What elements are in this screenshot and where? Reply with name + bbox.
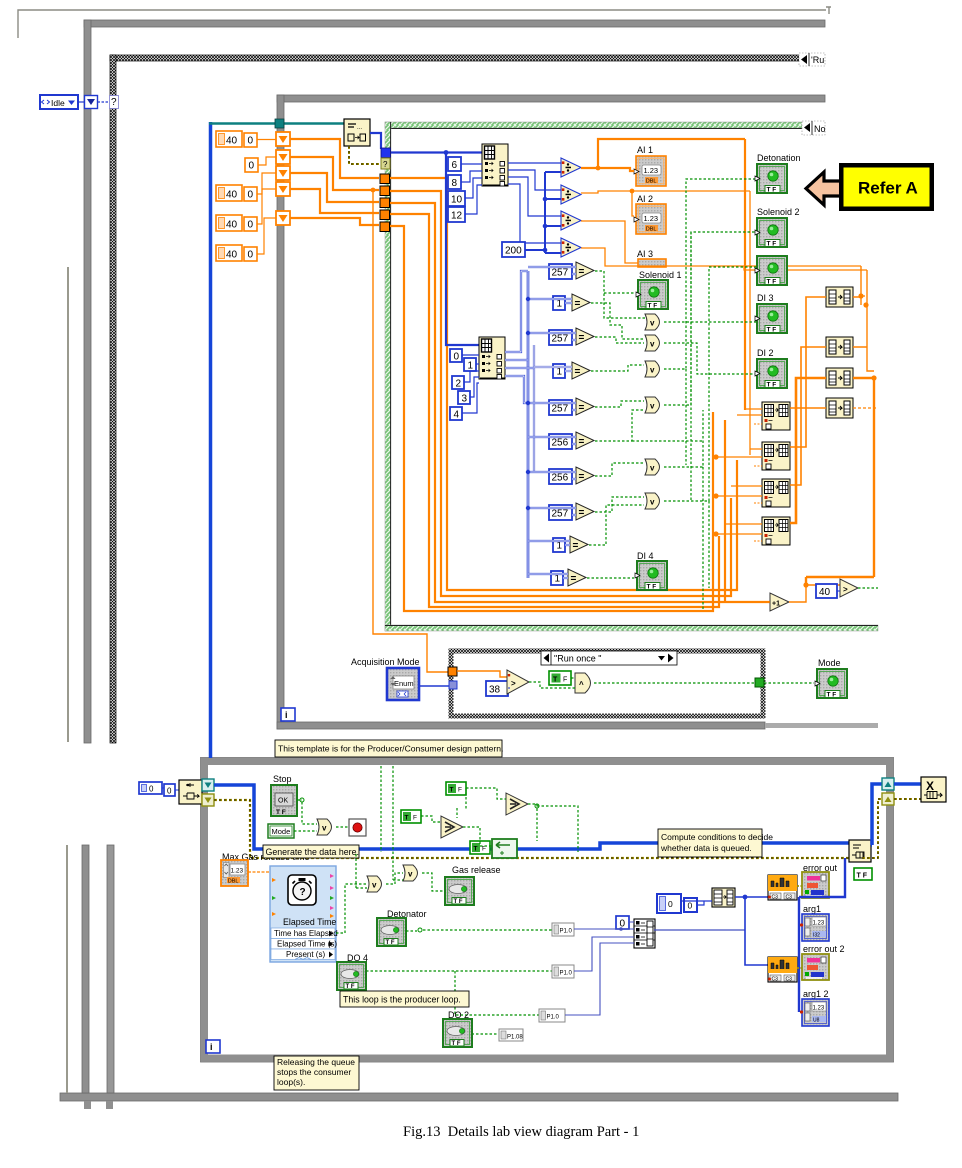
divide node D3 xyxy=(561,211,581,230)
wire tunnel3 descend right bundle xyxy=(390,203,770,602)
svg-text:No: No xyxy=(814,124,826,134)
wire const row3 to SR3 xyxy=(257,173,276,194)
page border corner top-left xyxy=(18,10,826,38)
producer while loop frame xyxy=(205,762,890,1059)
row2 equal node xyxy=(572,294,590,311)
wire 12 to U1 xyxy=(465,185,482,214)
OR gate column c xyxy=(645,361,660,377)
channel constant c2 xyxy=(552,965,574,978)
svg-text:T F: T F xyxy=(276,809,286,816)
dashed junction circle xyxy=(535,804,539,808)
bool-to-num node B2 xyxy=(826,337,853,357)
numeric constant 0 pair a xyxy=(657,894,681,913)
svg-text:1.23: 1.23 xyxy=(231,868,244,875)
svg-text:0: 0 xyxy=(688,901,693,911)
obtain queue constant 2 xyxy=(164,784,175,796)
row7 numeric constant 256 xyxy=(549,469,572,484)
loop stop terminal (red) xyxy=(349,819,366,836)
replace array node R1 xyxy=(762,402,790,430)
error wire into loop xyxy=(214,800,852,858)
svg-text:40: 40 xyxy=(819,587,831,598)
row8 bus dot xyxy=(526,506,530,510)
wire SR2 to tunnel2 xyxy=(290,157,379,190)
numeric indicator AI 2 xyxy=(634,204,666,234)
row9 wires xyxy=(528,541,570,545)
svg-text:1: 1 xyxy=(468,361,474,372)
svg-text:Elapsed Time (s): Elapsed Time (s) xyxy=(277,940,337,949)
row3 numeric constant 257 xyxy=(549,330,572,345)
svg-text:C3: C3 xyxy=(772,895,779,901)
numeric constant 12 xyxy=(448,207,465,222)
wire tunnel4 descend right bundle xyxy=(390,214,719,607)
svg-text:1: 1 xyxy=(557,541,563,552)
orange tunnel into run once case xyxy=(448,667,457,676)
svg-text:T F: T F xyxy=(857,873,868,880)
dashed wires producer ORs xyxy=(336,852,444,933)
boolean indicator Solenoid 2 xyxy=(755,218,787,248)
inner while loop bottom edge xyxy=(277,722,765,729)
svg-text:Acquisition Mode: Acquisition Mode xyxy=(351,657,420,667)
build array node xyxy=(634,919,655,948)
blue vertical to unbundle2 xyxy=(446,152,479,345)
row5 numeric constant 257 xyxy=(549,400,572,415)
row8 numeric constant 257 xyxy=(549,505,572,520)
svg-text:error out 2: error out 2 xyxy=(803,944,845,954)
row9 numeric constant 1 xyxy=(553,538,565,552)
OR gate column d xyxy=(645,397,660,413)
svg-text:I32: I32 xyxy=(813,933,820,939)
numeric constant 6 xyxy=(448,157,461,171)
row9 equal node xyxy=(570,536,588,553)
junction circle detonator xyxy=(418,928,422,932)
wire enum to tunnel xyxy=(78,101,84,103)
bool-to-num node B3 xyxy=(826,368,853,388)
numeric control 40 (CH0) xyxy=(216,131,242,147)
and gate xyxy=(575,673,591,693)
junction dot main blue xyxy=(444,150,449,155)
numeric constant u0 xyxy=(450,349,462,363)
build array out xyxy=(654,929,745,931)
svg-text:This template is for the Produ: This template is for the Producer/Consum… xyxy=(278,744,503,754)
inner while loop left edge xyxy=(277,95,284,729)
comparison bus vertical xyxy=(527,271,530,578)
numeric control 40 (CH3) xyxy=(216,245,242,261)
channel constant P1.08 xyxy=(499,1029,523,1041)
bool-to-num node B4 xyxy=(826,398,853,418)
orange tunnel4 on green case xyxy=(380,210,390,220)
svg-text:>: > xyxy=(843,585,848,594)
wire D3 to AI3 xyxy=(581,221,638,263)
wire 38 to greater2 xyxy=(508,687,510,689)
svg-text:0: 0 xyxy=(248,136,254,147)
numeric indicator AI 1 xyxy=(634,156,666,186)
greater output dashed xyxy=(858,587,878,589)
svg-text:loop(s).: loop(s). xyxy=(277,1077,305,1087)
svg-text:F: F xyxy=(458,787,462,794)
green dashed OR outputs and risers xyxy=(664,179,756,610)
green dashed row outputs xyxy=(587,271,703,578)
row8 equal node xyxy=(576,503,594,520)
wire 40 to greater xyxy=(837,590,840,592)
svg-text:0: 0 xyxy=(249,161,255,172)
numeric indicator arg1 2 xyxy=(800,999,829,1026)
run once case border xyxy=(451,651,763,716)
and gate output dashed to tunnel xyxy=(594,682,755,684)
svg-text:Refer A: Refer A xyxy=(858,179,918,198)
wire orange tunnel to greater2 xyxy=(457,671,507,677)
outer loop bottom stub left xyxy=(84,1101,91,1109)
wire const row2 to SR2 xyxy=(258,157,276,165)
queue wire into loop xyxy=(214,785,851,849)
row10 equal node xyxy=(568,569,586,586)
enqueue selector box xyxy=(492,839,517,858)
svg-text:P1.0: P1.0 xyxy=(547,1015,560,1021)
outer while loop top edge xyxy=(84,20,825,27)
comparison bus vertical2 xyxy=(533,345,535,471)
replace array node R3 xyxy=(762,479,790,507)
tunnel error out (olive) xyxy=(202,794,214,806)
svg-text:256: 256 xyxy=(552,438,569,449)
shift register SR3 xyxy=(276,166,290,180)
numeric constant u1 xyxy=(464,358,476,372)
thin inner-page line upper xyxy=(67,267,69,742)
enqueue element node xyxy=(849,840,871,862)
svg-text:0: 0 xyxy=(248,250,254,261)
svg-text:T: T xyxy=(450,787,454,794)
comment releasing queue xyxy=(274,1056,359,1090)
svg-text:1.23: 1.23 xyxy=(813,1006,825,1012)
wire 6 to U1 xyxy=(461,163,482,165)
numeric constant 8 xyxy=(448,175,461,189)
svg-text:1: 1 xyxy=(557,367,563,378)
tunnel queue out of producer (teal) xyxy=(882,778,894,790)
row1 equal node xyxy=(576,262,594,279)
OR gate producer2 xyxy=(367,876,382,892)
wires channels to build array xyxy=(565,922,634,1015)
outer case label "'Ru xyxy=(799,53,825,66)
row3 bus dot xyxy=(526,331,530,335)
orange tunnel2 on green case xyxy=(380,186,390,196)
row6 wires xyxy=(528,437,576,444)
row1 wires xyxy=(528,267,576,274)
boolean indicator Solenoid 1 xyxy=(636,280,668,310)
svg-text:Time has Elapsed: Time has Elapsed xyxy=(274,929,338,938)
svg-text:arg1: arg1 xyxy=(803,904,821,914)
blue vertical daq bus xyxy=(745,897,768,965)
svg-text:Mode: Mode xyxy=(818,658,841,668)
svg-text:i: i xyxy=(285,710,288,720)
svg-text:F: F xyxy=(413,815,417,822)
case selector terminal ? xyxy=(110,96,119,109)
left bar lower resume thick1 xyxy=(82,845,89,1093)
outer case structure left border (hatched) xyxy=(110,55,116,743)
main blue wire into unbundle1 xyxy=(391,151,482,153)
numeric constant 0 pair b xyxy=(684,898,697,912)
row7 bus dot xyxy=(526,470,530,474)
green case bottom border xyxy=(385,625,878,631)
shift register SR2 xyxy=(276,150,290,164)
outer while loop bottom edge xyxy=(60,1093,898,1101)
replace array node R4 xyxy=(762,517,790,545)
wire enum to case xyxy=(419,685,449,687)
boolean indicator Gas release xyxy=(445,877,474,905)
svg-text:1: 1 xyxy=(557,299,563,310)
inner while loop iteration terminal [i] xyxy=(281,708,295,721)
numeric constant 38 xyxy=(486,681,508,696)
tunnel queue out (teal) xyxy=(202,779,214,791)
OR gate column a xyxy=(645,314,660,330)
svg-text:257: 257 xyxy=(552,268,569,279)
green case label No xyxy=(802,121,826,135)
svg-text:0: 0 xyxy=(167,787,172,796)
orange riser to B nodes xyxy=(790,266,877,585)
bool-to-num node B1 xyxy=(826,287,853,307)
row6 equal node xyxy=(576,432,594,449)
svg-text:Releasing the queue: Releasing the queue xyxy=(277,1057,355,1067)
inner while loop bottom edge light continuation xyxy=(765,723,878,728)
svg-text:1: 1 xyxy=(555,574,561,585)
bundle junction dot b xyxy=(713,493,718,498)
comment generate data xyxy=(263,845,359,858)
svg-text:OK: OK xyxy=(278,798,288,805)
boolean indicator Mode xyxy=(815,669,847,699)
svg-text:C3: C3 xyxy=(772,977,779,983)
dashed OR to stop terminal xyxy=(336,826,349,828)
wire +1 to greater xyxy=(789,585,840,602)
svg-text:i: i xyxy=(210,1042,213,1052)
wire u1 xyxy=(476,363,479,365)
wire dequeue data out to tunnel xyxy=(370,133,381,149)
wire SR5 to tunnel5 xyxy=(290,218,379,225)
numeric constant 0 row2 xyxy=(245,158,258,172)
run once case label xyxy=(541,651,677,665)
error daq2 to error out 2 xyxy=(797,967,802,969)
unbundle node U1 xyxy=(482,144,508,186)
queue refnum wire vertical (to producer loop) xyxy=(209,122,213,758)
svg-text:DI 3: DI 3 xyxy=(757,293,774,303)
svg-text:P1.08: P1.08 xyxy=(507,1035,523,1041)
enum control Acquisition Mode xyxy=(387,668,419,700)
svg-text:10: 10 xyxy=(451,195,463,206)
row1 numeric constant 257 xyxy=(549,264,572,279)
boolean constant TF producer2 xyxy=(401,810,421,823)
wire u0 xyxy=(462,354,479,356)
shift register SR1 xyxy=(276,132,290,146)
row2 wires xyxy=(528,299,572,303)
svg-text:40: 40 xyxy=(226,250,238,261)
svg-text:0: 0 xyxy=(149,785,154,794)
svg-text:0: 0 xyxy=(248,190,254,201)
outer while loop left edge xyxy=(84,20,91,743)
select gate B xyxy=(441,816,463,838)
error daq1 to error out xyxy=(797,885,802,887)
boolean indicator DI 2 xyxy=(755,359,787,389)
row10 numeric constant 1 xyxy=(551,571,563,585)
svg-text:U8: U8 xyxy=(813,1018,820,1024)
obtain queue node xyxy=(179,780,202,804)
boolean indicator TF small xyxy=(854,868,872,880)
wire 200 to divider bus xyxy=(525,249,545,251)
svg-text:40: 40 xyxy=(226,190,238,201)
svg-text:T: T xyxy=(474,846,478,853)
OR gate column b xyxy=(645,335,660,351)
wires constants to obtain queue xyxy=(162,788,179,790)
green case left border xyxy=(385,122,391,631)
svg-text:257: 257 xyxy=(552,509,569,520)
svg-text:T: T xyxy=(405,815,409,822)
shift register SR5 xyxy=(276,211,290,225)
cluster indicator error out xyxy=(802,872,829,898)
boolean indicator DO 4 xyxy=(337,962,366,990)
dashed stop to OR xyxy=(294,800,317,831)
tunnel blue into green case xyxy=(381,148,391,158)
numeric constant u2 xyxy=(452,376,464,390)
boolean indicator DI 3 xyxy=(755,304,787,334)
OR gate producer xyxy=(317,819,332,835)
svg-text:?: ? xyxy=(111,97,117,108)
svg-text:Generate the data here.: Generate the data here. xyxy=(266,847,359,857)
thin inner-page line lower xyxy=(66,845,68,1093)
row5 wires xyxy=(528,403,576,410)
channel constant c1 xyxy=(552,923,574,936)
svg-text:38: 38 xyxy=(489,685,501,696)
svg-text:0: 0 xyxy=(454,352,460,363)
numeric constant u4 xyxy=(450,407,462,421)
wire tunnel5 descend right bundle xyxy=(390,226,713,611)
wire 8 to U1 xyxy=(461,171,482,182)
numeric indicator AI 3 partial xyxy=(638,259,666,267)
svg-text:T: T xyxy=(553,677,558,684)
boolean indicator Detonator xyxy=(377,918,406,946)
bundle vertical extra xyxy=(724,420,726,602)
svg-text:40: 40 xyxy=(226,220,238,231)
row4 wires xyxy=(534,367,572,371)
queue wire to release node xyxy=(894,782,921,786)
producer loop iteration terminal [i] xyxy=(206,1040,220,1053)
svg-text:12: 12 xyxy=(451,211,463,222)
blue tunnel into run once case xyxy=(449,681,457,689)
numeric constant 0 row1 xyxy=(244,133,257,147)
DAQmx write node 1 xyxy=(768,875,797,901)
svg-text:?: ? xyxy=(300,887,306,898)
junction dot D1 out xyxy=(596,166,601,171)
row10 wires xyxy=(528,574,568,578)
left bar lower resume thick2 xyxy=(107,845,114,1093)
divider bus vertical xyxy=(545,172,561,253)
numeric constant 200 xyxy=(502,242,525,257)
error wire to release xyxy=(862,799,921,858)
green case (No Error) top border xyxy=(385,122,802,128)
select gate A xyxy=(506,793,528,815)
dashed detonator wiring xyxy=(366,930,552,1034)
boolean indicator DO 1 partial xyxy=(755,256,787,286)
svg-text:+1: +1 xyxy=(772,601,780,608)
wire U1 row3 to D3 xyxy=(508,177,561,216)
wire D1 to AI1 and top rail xyxy=(581,139,745,171)
svg-text:^: ^ xyxy=(579,680,584,689)
wire array node to daq xyxy=(735,896,768,898)
row6 numeric constant 256 xyxy=(549,434,572,449)
express VI Elapsed Time xyxy=(270,866,338,962)
wire 10 to U1 xyxy=(465,178,482,198)
svg-text:256: 256 xyxy=(552,473,569,484)
svg-text:DBL: DBL xyxy=(228,879,239,885)
boolean indicator DI 4 xyxy=(635,561,667,591)
bundle junction dot a xyxy=(713,454,718,459)
svg-text:Idle: Idle xyxy=(51,98,65,108)
orange tunnel1 on green case xyxy=(380,174,390,184)
svg-text:Solenoid 1: Solenoid 1 xyxy=(639,270,682,280)
comment producer loop xyxy=(340,991,469,1007)
dashed wiring select gates xyxy=(381,766,578,880)
svg-text:0: 0 xyxy=(248,220,254,231)
comment compute conditions xyxy=(658,829,773,857)
tunnel error out of producer (olive) xyxy=(882,793,894,805)
svg-text:DI 4: DI 4 xyxy=(637,551,654,561)
boolean constant TF producer1 xyxy=(446,782,466,795)
orange tunnel3 on green case xyxy=(380,198,390,208)
wire SR1 to tunnel1 xyxy=(290,139,379,178)
bundle junction dot c xyxy=(713,531,718,536)
svg-text:Stop: Stop xyxy=(273,774,292,784)
row7 equal node xyxy=(576,467,594,484)
junction dot plus-one xyxy=(803,582,808,587)
orange feeders into replace nodes xyxy=(716,409,762,541)
wire u4 xyxy=(462,383,479,413)
array constant node xyxy=(712,888,735,907)
greater node run-once xyxy=(507,670,529,694)
dequeue element node xyxy=(344,119,370,146)
wires into and gate xyxy=(529,678,575,688)
DAQmx write node 2 xyxy=(768,957,797,983)
row3 equal node xyxy=(576,328,594,345)
boolean constant TF producer3 xyxy=(470,841,490,854)
release queue node xyxy=(921,777,946,802)
local variable Mode xyxy=(268,824,294,838)
svg-text:'Ru: 'Ru xyxy=(811,55,824,65)
junction dot right rail 2 xyxy=(863,302,868,307)
comment producer-consumer template xyxy=(275,740,503,757)
numeric constant 10 xyxy=(448,191,465,206)
row4 numeric constant 1 xyxy=(553,364,565,378)
page border tick top-right xyxy=(826,7,831,14)
junction blue daq xyxy=(743,895,748,900)
svg-text:Enum: Enum xyxy=(394,679,414,688)
queue refnum wire horizontal to dequeue xyxy=(209,122,344,125)
svg-text:?: ? xyxy=(383,160,388,169)
boolean indicator DO 2 xyxy=(443,1019,472,1047)
obtain queue constants xyxy=(139,782,162,794)
divide node D2 xyxy=(561,185,581,204)
svg-text:Elapsed Time: Elapsed Time xyxy=(283,917,336,927)
wire tunnel to case selector xyxy=(98,101,111,103)
long wire down to acquisition case xyxy=(373,190,449,672)
svg-text:40: 40 xyxy=(226,136,238,147)
tunnel on outer loop edge xyxy=(85,96,98,109)
stop out junction xyxy=(300,798,304,802)
row2 bus dot xyxy=(526,297,530,301)
svg-text:>: > xyxy=(511,679,516,688)
Refer A label xyxy=(839,163,934,211)
wire D2 out thin rail xyxy=(581,191,750,455)
green tunnel run-once right xyxy=(755,678,764,687)
svg-text:X: X xyxy=(926,779,934,793)
svg-text:...: ... xyxy=(357,125,362,131)
svg-text:200: 200 xyxy=(505,246,522,257)
row5 bus dot xyxy=(526,401,530,405)
divide node D4 xyxy=(561,238,581,257)
wire SR4 to tunnel4 xyxy=(290,189,379,213)
